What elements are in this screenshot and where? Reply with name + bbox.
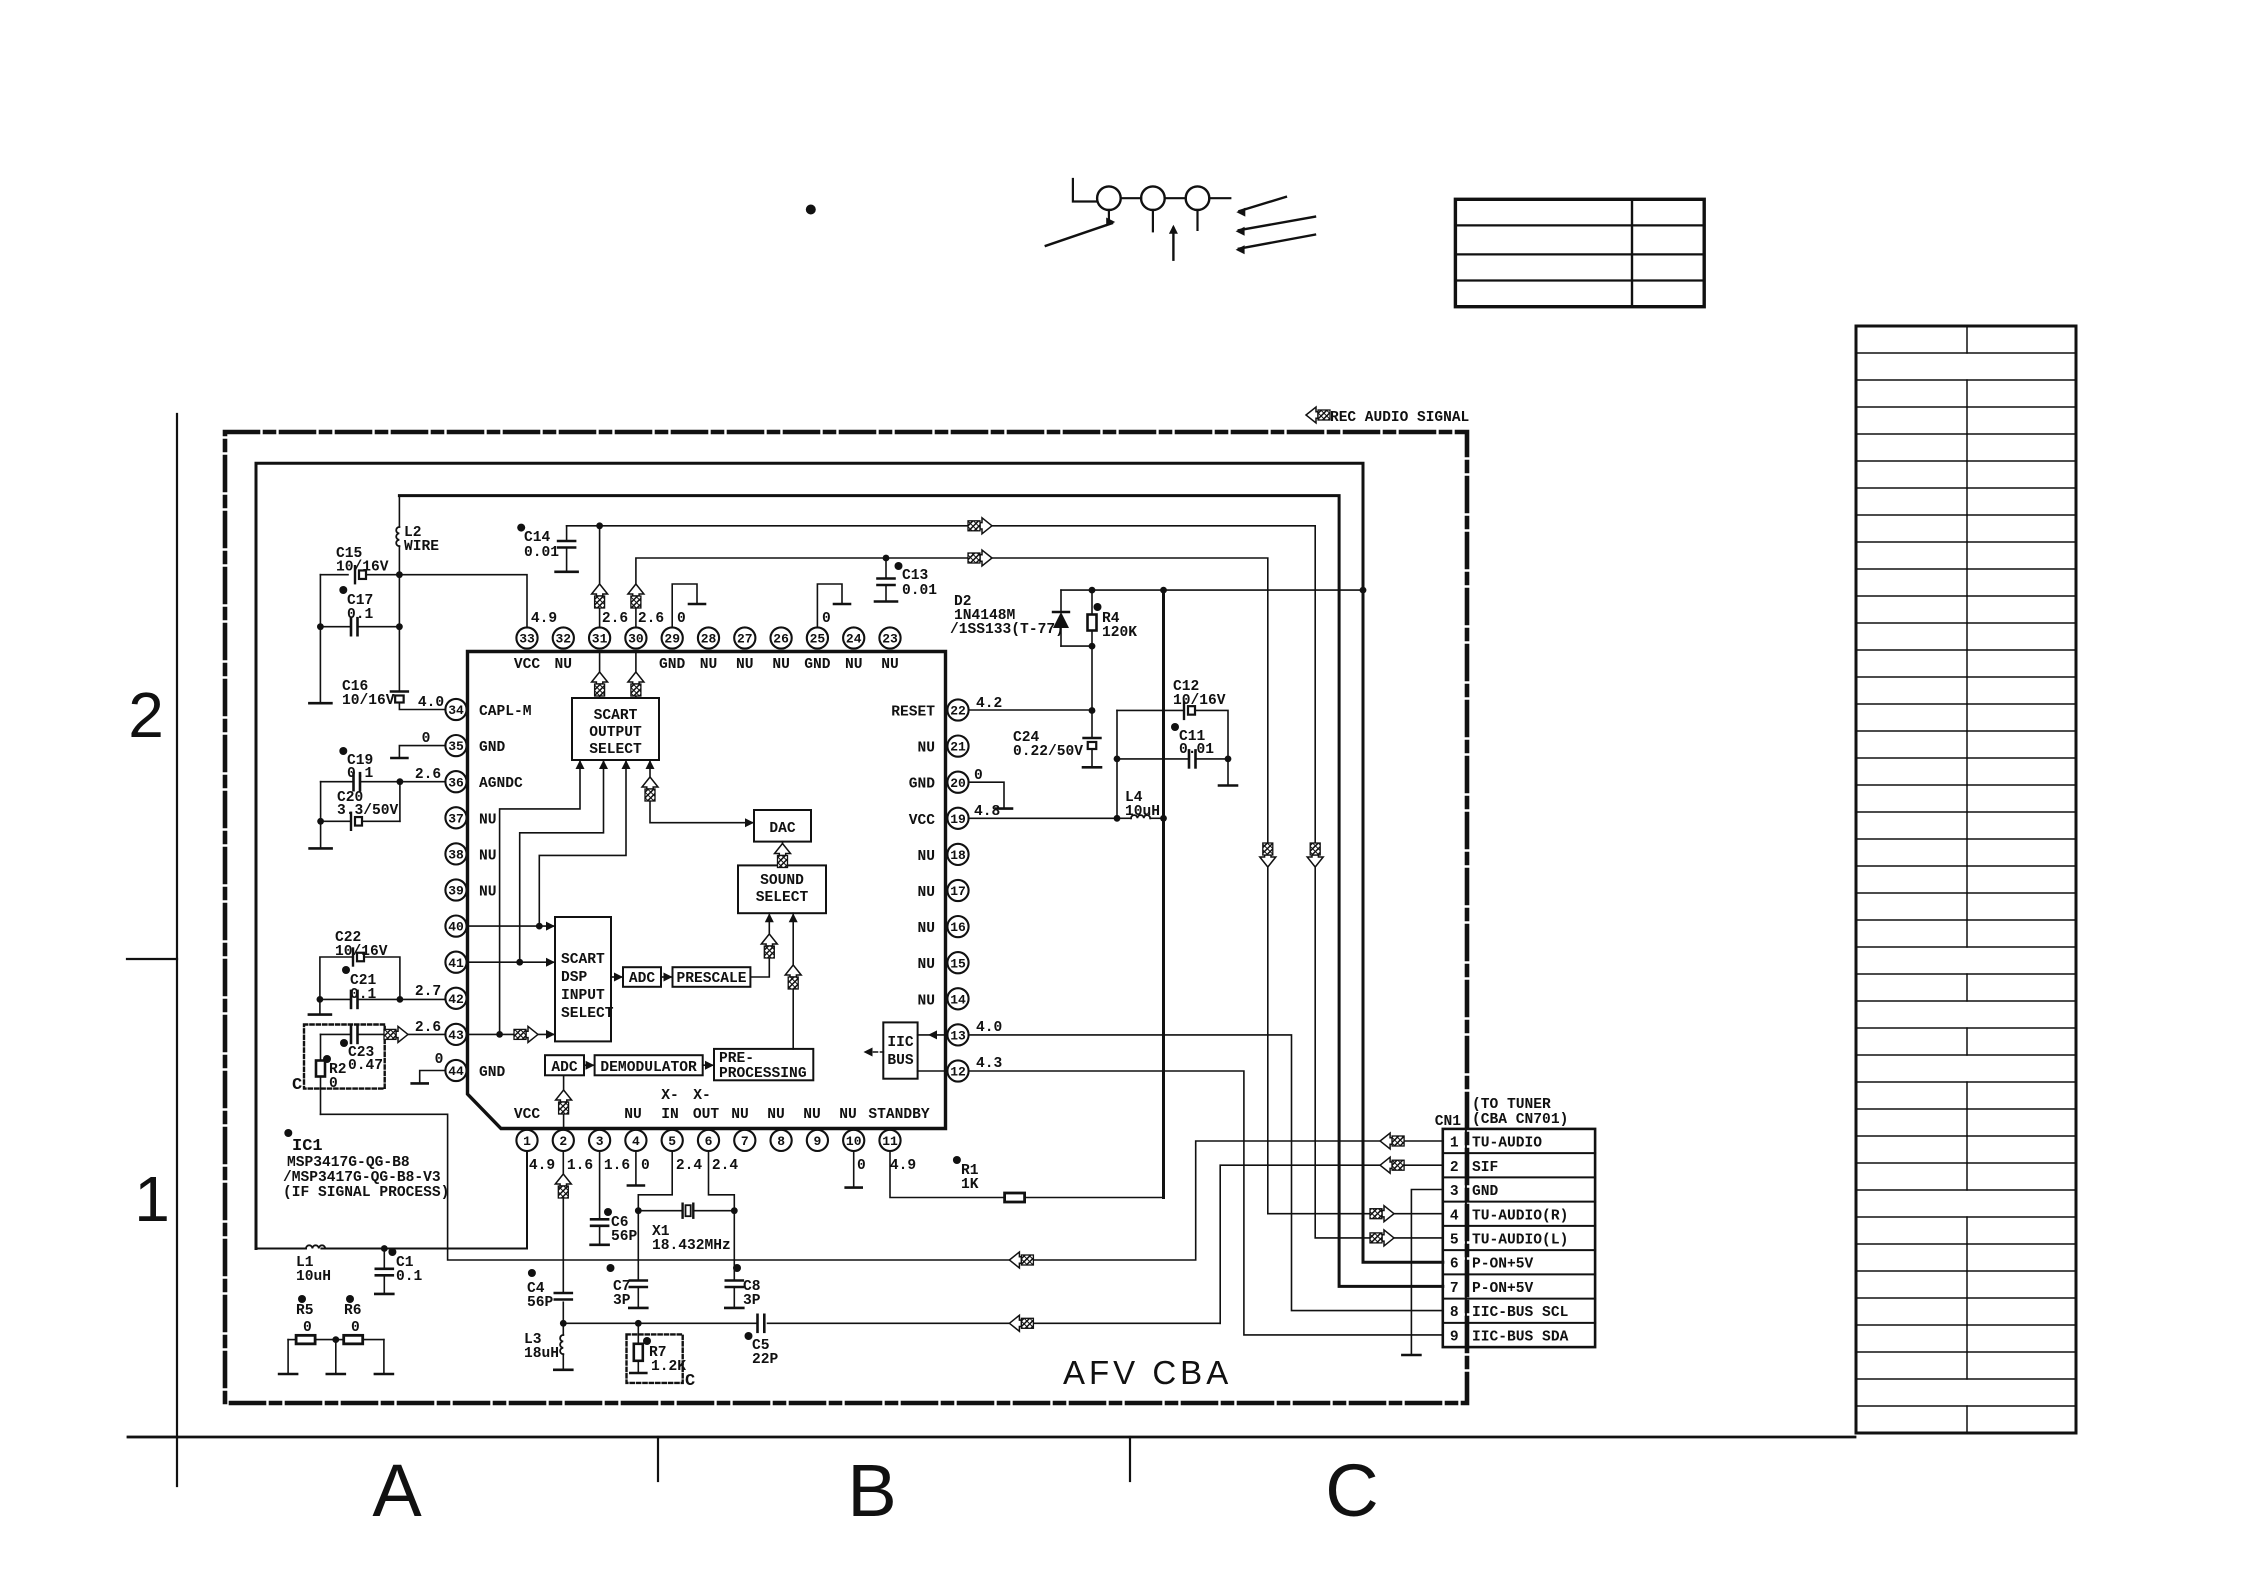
svg-text:7: 7: [1450, 1281, 1459, 1297]
wire pin12 to CN1 SDA: [969, 1071, 1443, 1335]
svg-text:CN1: CN1: [1435, 1114, 1462, 1130]
sheet frame left ruler: [127, 414, 177, 1486]
ground R5 left: [279, 1340, 297, 1374]
svg-text:31: 31: [592, 632, 608, 647]
svg-text:2: 2: [559, 1134, 567, 1149]
IC1 left pin names: [479, 704, 532, 1081]
shield box R7 label C: [685, 1372, 695, 1391]
wire pin31 to SCART OUTPUT SELECT: [599, 652, 601, 699]
signal arrow SIF mid: [1009, 1315, 1033, 1331]
svg-text:3: 3: [596, 1134, 604, 1149]
wire pin2 column: [560, 1151, 567, 1335]
svg-text:0: 0: [329, 1076, 338, 1092]
sheet frame bottom ruler: [128, 1437, 1855, 1481]
svg-text:14: 14: [950, 992, 966, 1007]
wire pin43 to SCARTDSP: [467, 1030, 555, 1039]
svg-text:1: 1: [134, 1163, 170, 1235]
svg-text:37: 37: [448, 811, 464, 826]
svg-text:38: 38: [448, 848, 464, 863]
svg-text:11: 11: [882, 1134, 898, 1149]
svg-text:VCC: VCC: [514, 1107, 541, 1123]
IC1 left pins 34-44: [445, 699, 466, 1081]
ADC block upper: [623, 967, 661, 987]
signal arrow SIF into CN1: [1380, 1157, 1404, 1173]
svg-text:TU-AUDIO: TU-AUDIO: [1472, 1136, 1542, 1152]
SCART DSP INPUT SELECT block: [555, 917, 614, 1041]
svg-text:35: 35: [448, 739, 464, 754]
column label C: [1325, 1449, 1378, 1532]
wire pin31 riser: [596, 522, 603, 627]
wire net SIF: [563, 1165, 1443, 1327]
svg-text:PRESCALE: PRESCALE: [676, 971, 746, 987]
C14 label: [517, 524, 559, 561]
legend arrow up: [1169, 225, 1178, 260]
legend arrow up-right: [1046, 218, 1115, 246]
signal arrow TU-AUDIO(R) top: [968, 550, 992, 566]
svg-text:GND: GND: [1472, 1184, 1499, 1200]
capacitor C11: [1117, 750, 1231, 767]
IIC BUS dashed arrow: [864, 1048, 884, 1057]
capacitor C7: [629, 1211, 647, 1308]
svg-text:GND: GND: [659, 657, 686, 673]
row label 1: [134, 1163, 170, 1235]
wire pin13 to CN1 SCL: [969, 1035, 1443, 1311]
capacitor C8: [725, 1211, 743, 1308]
svg-text:AGNDC: AGNDC: [479, 776, 523, 792]
svg-text:15: 15: [950, 956, 966, 971]
wire C17 branch: [317, 575, 324, 703]
wire pin44 gnd: [412, 1071, 446, 1084]
svg-text:0: 0: [677, 611, 686, 627]
resistor R5: [288, 1335, 336, 1344]
svg-text:56P: 56P: [611, 1229, 638, 1245]
svg-text:24: 24: [846, 632, 862, 647]
AFV CBA boundary dash-dot box: [225, 432, 1467, 1403]
wire pin4 gnd: [628, 1151, 644, 1186]
IC1 top pins 33-23: [516, 627, 900, 648]
wire net TU-AUDIO(L): [567, 526, 1443, 1238]
ground C11: [1219, 759, 1237, 786]
inductor L1: [256, 1245, 325, 1248]
svg-text:TU-AUDIO(L): TU-AUDIO(L): [1472, 1233, 1568, 1249]
SOUND SELECT block: [738, 865, 826, 913]
revision table: [1455, 199, 1704, 306]
column label A: [372, 1449, 422, 1532]
ground C17: [309, 702, 331, 705]
svg-text:27: 27: [737, 632, 753, 647]
resistor R4: [1088, 590, 1097, 714]
wire pin41 to SCARTDSP: [467, 958, 555, 967]
svg-text:33: 33: [519, 632, 535, 647]
C15 label: [336, 546, 389, 576]
R6 label: [344, 1295, 362, 1336]
parts list table: [1856, 326, 2076, 1433]
C4 label: [527, 1269, 554, 1311]
svg-text:SOUND: SOUND: [760, 873, 804, 889]
capacitor C24: [1083, 711, 1101, 768]
signal arrow DAC-SS: [775, 844, 791, 868]
wire DAC to SOUND SELECT: [782, 842, 784, 866]
wire pin35 gnd: [391, 746, 445, 758]
C22 label: [335, 930, 388, 960]
svg-text:B: B: [847, 1449, 896, 1532]
svg-text:X-: X-: [693, 1088, 711, 1104]
wire SOS out C: [539, 760, 630, 926]
svg-text:NU: NU: [881, 657, 899, 673]
svg-text:NU: NU: [479, 885, 497, 901]
svg-text:34: 34: [448, 703, 464, 718]
C24 label: [1013, 730, 1083, 760]
svg-text:C13: C13: [902, 568, 929, 584]
svg-text:4.0: 4.0: [418, 695, 444, 711]
svg-text:30: 30: [628, 632, 644, 647]
svg-text:1.6: 1.6: [567, 1158, 593, 1174]
svg-text:2.6: 2.6: [602, 611, 628, 627]
signal arrow TU-AUDIO(R) into CN1: [1370, 1206, 1394, 1222]
svg-text:MSP3417G-QG-B8: MSP3417G-QG-B8: [287, 1155, 410, 1171]
svg-text:ADC: ADC: [629, 971, 656, 987]
IC1 top pin names: [514, 657, 899, 673]
svg-text:32: 32: [555, 632, 571, 647]
IC1 reference label: [283, 1129, 449, 1201]
column label B: [847, 1449, 896, 1532]
wire pin5 to X1: [635, 1151, 672, 1214]
svg-text:NU: NU: [772, 657, 790, 673]
svg-text:AFV CBA: AFV CBA: [1063, 1354, 1232, 1391]
X1 label: [652, 1224, 731, 1254]
svg-text:BUS: BUS: [887, 1053, 914, 1069]
signal arrow TU-AUDIO(R) drop: [1260, 843, 1276, 867]
svg-text:2: 2: [128, 679, 164, 751]
wire pin40 to SCARTDSP: [467, 922, 555, 931]
svg-text:NU: NU: [479, 848, 497, 864]
svg-text:GND: GND: [479, 740, 506, 756]
svg-text:P-ON+5V: P-ON+5V: [1472, 1257, 1534, 1273]
svg-text:9: 9: [813, 1134, 821, 1149]
svg-text:10uH: 10uH: [1125, 804, 1160, 820]
svg-text:STANDBY: STANDBY: [868, 1107, 930, 1123]
svg-text:INPUT: INPUT: [561, 988, 605, 1004]
svg-text:10/16V: 10/16V: [342, 693, 395, 709]
IC1 right pin names: [891, 705, 935, 1010]
svg-text:IN: IN: [661, 1107, 679, 1123]
C5 label: [745, 1332, 779, 1368]
svg-text:56P: 56P: [527, 1295, 554, 1311]
CN1 reference label: [1435, 1114, 1462, 1130]
svg-text:3: 3: [1450, 1184, 1459, 1200]
svg-text:20: 20: [950, 776, 966, 791]
AFV CBA title: [1063, 1354, 1232, 1391]
svg-text:6: 6: [1450, 1257, 1459, 1273]
wire CN1 GND: [1402, 1190, 1442, 1356]
svg-text:C: C: [685, 1372, 695, 1391]
wire VCC top (D2 rail): [1061, 587, 1366, 594]
svg-text:VCC: VCC: [514, 657, 541, 673]
svg-text:0: 0: [641, 1158, 650, 1174]
svg-text:43: 43: [448, 1028, 464, 1043]
svg-text:40: 40: [448, 920, 464, 935]
svg-text:(TO TUNER: (TO TUNER: [1472, 1097, 1551, 1113]
svg-text:21: 21: [950, 740, 966, 755]
pin voltage values: [415, 611, 1003, 1174]
wire SCARTDSP to ADC: [611, 973, 623, 982]
svg-text:8: 8: [1450, 1305, 1459, 1321]
svg-text:41: 41: [448, 956, 464, 971]
svg-text:4.9: 4.9: [890, 1158, 916, 1174]
signal arrow C23 out: [384, 1026, 408, 1042]
REC AUDIO SIGNAL arrow: [1306, 407, 1330, 423]
svg-text:10/16V: 10/16V: [1173, 693, 1226, 709]
resistor R6: [332, 1335, 384, 1344]
svg-text:19: 19: [950, 812, 966, 827]
svg-text:39: 39: [448, 884, 464, 899]
C21 label: [342, 966, 377, 1003]
svg-text:1.6: 1.6: [604, 1158, 630, 1174]
svg-text:R5: R5: [296, 1303, 314, 1319]
wire pin20 stub: [969, 782, 1013, 808]
svg-text:25: 25: [810, 632, 826, 647]
row label 2: [128, 679, 164, 751]
wire IIC BUS to pin12: [918, 1070, 948, 1072]
wire pin33 via C15: [320, 575, 527, 628]
svg-text:SELECT: SELECT: [756, 890, 809, 906]
signal arrow prescale-SS: [761, 934, 777, 958]
svg-text:3.3/50V: 3.3/50V: [337, 803, 399, 819]
signal arrow pin30 outer: [628, 584, 644, 608]
svg-text:IIC-BUS SCL: IIC-BUS SCL: [1472, 1305, 1568, 1321]
svg-text:X-: X-: [661, 1088, 679, 1104]
capacitor C1: [375, 1249, 393, 1294]
shield box R7: [627, 1334, 683, 1383]
C19 label: [339, 747, 373, 782]
svg-text:4.9: 4.9: [529, 1158, 555, 1174]
svg-text:0.1: 0.1: [347, 607, 374, 623]
wire IIC BUS to pin13: [918, 1030, 948, 1039]
svg-text:7: 7: [741, 1134, 749, 1149]
capacitor C21: [351, 991, 358, 1008]
svg-text:10: 10: [846, 1134, 862, 1149]
wire pin30 to SCART OUTPUT SELECT: [635, 652, 637, 699]
svg-text:NU: NU: [624, 1107, 642, 1123]
wire pin6 to X1: [709, 1151, 738, 1214]
svg-text:23: 23: [882, 632, 898, 647]
svg-text:NU: NU: [700, 657, 718, 673]
signal arrow ADC2-pin2: [556, 1090, 572, 1114]
C1 label: [388, 1248, 422, 1285]
legend arrow diag 1: [1236, 197, 1286, 217]
svg-text:1: 1: [1450, 1136, 1459, 1152]
IC1 body: [468, 652, 946, 1129]
svg-text:0.1: 0.1: [347, 766, 374, 782]
signal arrow pin2: [555, 1174, 571, 1198]
ADC block lower: [545, 1055, 584, 1076]
svg-text:12: 12: [950, 1065, 966, 1080]
svg-text:NU: NU: [479, 812, 497, 828]
signal arrow preproc-SS: [785, 965, 801, 989]
svg-text:4.0: 4.0: [976, 1020, 1002, 1036]
svg-text:13: 13: [950, 1029, 966, 1044]
svg-text:DAC: DAC: [769, 821, 796, 837]
svg-text:10/16V: 10/16V: [336, 560, 389, 576]
svg-text:A: A: [372, 1449, 422, 1532]
svg-text:NU: NU: [917, 849, 935, 865]
wire pin10 gnd: [846, 1151, 862, 1188]
wire C20 loop: [317, 782, 400, 848]
capacitor C6: [591, 1219, 609, 1245]
wire C21 to pin42: [317, 996, 446, 1003]
wire net P-ON+5V lower (thick): [399, 496, 1442, 1287]
svg-text:PROCESSING: PROCESSING: [719, 1066, 807, 1082]
svg-text:0: 0: [422, 731, 431, 747]
R2 label: [323, 1055, 347, 1092]
svg-text:2: 2: [1450, 1160, 1459, 1176]
C6 label: [604, 1208, 638, 1245]
C20 label: [337, 790, 399, 819]
svg-text:0: 0: [435, 1052, 444, 1068]
svg-text:SELECT: SELECT: [589, 742, 642, 758]
inductor L4: [1117, 815, 1167, 822]
svg-text:(IF SIGNAL PROCESS): (IF SIGNAL PROCESS): [283, 1185, 449, 1201]
wire SOS out D to DAC: [646, 760, 755, 827]
svg-text:C: C: [1325, 1449, 1378, 1532]
connector CN1: [1443, 1129, 1595, 1347]
svg-text:VCC: VCC: [909, 813, 936, 829]
svg-text:GND: GND: [909, 777, 936, 793]
signal arrow DAC branch: [642, 777, 658, 801]
svg-text:120K: 120K: [1102, 625, 1137, 641]
svg-text:GND: GND: [804, 657, 831, 673]
svg-text:1K: 1K: [961, 1177, 979, 1193]
capacitor C16: [391, 692, 446, 710]
svg-text:10/16V: 10/16V: [335, 944, 388, 960]
svg-text:C: C: [292, 1076, 302, 1095]
svg-text:SCART: SCART: [561, 952, 605, 968]
svg-text:2.4: 2.4: [712, 1158, 739, 1174]
svg-text:29: 29: [664, 632, 680, 647]
crystal X1: [638, 1204, 734, 1218]
C8 label: [733, 1264, 761, 1309]
svg-text:SCART: SCART: [594, 708, 638, 724]
CN1 destination note: [1472, 1097, 1568, 1128]
wire VCC riser: [1162, 590, 1165, 1197]
C7 label: [607, 1264, 631, 1309]
svg-text:PRE-: PRE-: [719, 1051, 754, 1067]
svg-text:IIC: IIC: [887, 1035, 914, 1051]
svg-text:NU: NU: [803, 1107, 821, 1123]
R5 label: [296, 1295, 314, 1336]
svg-text:NU: NU: [731, 1107, 749, 1123]
C12 label: [1173, 679, 1226, 709]
svg-text:NU: NU: [917, 741, 935, 757]
svg-text:0: 0: [822, 611, 831, 627]
inductor L2 WIRE: [396, 496, 403, 692]
wire pin1 loop: [321, 1151, 527, 1252]
svg-text:/MSP3417G-QG-B8-V3: /MSP3417G-QG-B8-V3: [283, 1170, 441, 1186]
wire pin11 R1: [890, 1151, 1164, 1198]
svg-text:OUT: OUT: [693, 1107, 720, 1123]
wire pin29 stub: [672, 584, 705, 627]
svg-text:0: 0: [857, 1158, 866, 1174]
svg-text:0.01: 0.01: [902, 583, 937, 599]
wire pin25 stub: [817, 584, 850, 627]
capacitor C19: [354, 773, 361, 790]
SCART OUTPUT SELECT block: [572, 698, 659, 760]
svg-text:6: 6: [705, 1134, 713, 1149]
shield box C23/R2: [304, 1025, 385, 1089]
L2 label: [404, 525, 439, 555]
L4 label: [1125, 790, 1160, 820]
svg-text:(CBA CN701): (CBA CN701): [1472, 1112, 1568, 1128]
svg-text:4.3: 4.3: [976, 1056, 1003, 1072]
svg-text:5: 5: [668, 1134, 676, 1149]
capacitor C13: [875, 555, 897, 602]
svg-text:22P: 22P: [752, 1352, 779, 1368]
C16 label: [342, 679, 395, 709]
PRE-PROCESSING block: [714, 1049, 813, 1082]
R4 label: [1094, 603, 1138, 641]
wire ADC2 to pin2: [563, 1075, 565, 1128]
svg-text:10uH: 10uH: [296, 1269, 331, 1285]
svg-text:2.7: 2.7: [415, 984, 441, 1000]
IIC BUS block: [883, 1022, 917, 1078]
svg-text:16: 16: [950, 920, 966, 935]
signal arrow TU-AUDIO(L) into CN1: [1370, 1230, 1394, 1246]
capacitor C14: [556, 526, 578, 572]
signal arrow pin43: [514, 1026, 538, 1042]
L3 label: [524, 1332, 559, 1362]
REC AUDIO SIGNAL label: [1330, 410, 1469, 426]
svg-text:NU: NU: [767, 1107, 785, 1123]
svg-text:2.4: 2.4: [676, 1158, 703, 1174]
svg-text:SELECT: SELECT: [561, 1006, 614, 1022]
capacitor C4: [555, 1293, 572, 1300]
C17 label: [339, 586, 373, 623]
svg-text:NU: NU: [917, 885, 935, 901]
svg-text:22: 22: [950, 704, 966, 719]
svg-text:8: 8: [777, 1134, 785, 1149]
wire pin19 VCC: [969, 815, 1121, 822]
IC1 bottom pins 1-11: [516, 1130, 900, 1151]
wire ADC to PRESCALE: [661, 973, 673, 982]
svg-text:0.22/50V: 0.22/50V: [1013, 744, 1083, 760]
svg-text:DEMODULATOR: DEMODULATOR: [600, 1060, 697, 1076]
resistor R7: [630, 1323, 646, 1373]
svg-text:NU: NU: [917, 993, 935, 1009]
svg-text:0.01: 0.01: [1179, 742, 1214, 758]
svg-text:R6: R6: [344, 1303, 362, 1319]
C23 label: [340, 1039, 383, 1074]
svg-text:NU: NU: [839, 1107, 857, 1123]
svg-text:0.47: 0.47: [348, 1058, 383, 1074]
signal arrow TU-AUDIO(L) top: [968, 518, 992, 534]
wire net P-ON+5V upper (thick): [256, 463, 1443, 1262]
capacitor C5: [758, 1315, 765, 1332]
DAC block: [754, 810, 811, 842]
svg-text:NU: NU: [736, 657, 754, 673]
PRESCALE block: [673, 967, 751, 987]
svg-text:42: 42: [448, 992, 464, 1007]
D2 label: [950, 594, 1064, 638]
capacitor C22 loop: [320, 949, 400, 1000]
svg-text:3P: 3P: [613, 1293, 631, 1309]
capacitor C20: [351, 813, 362, 830]
svg-text:18: 18: [950, 848, 966, 863]
svg-text:9: 9: [1450, 1329, 1459, 1345]
legend arrow diag 3: [1236, 235, 1315, 255]
svg-text:0: 0: [303, 1320, 312, 1336]
C11 label: [1171, 723, 1214, 758]
svg-text:0.01: 0.01: [524, 545, 559, 561]
